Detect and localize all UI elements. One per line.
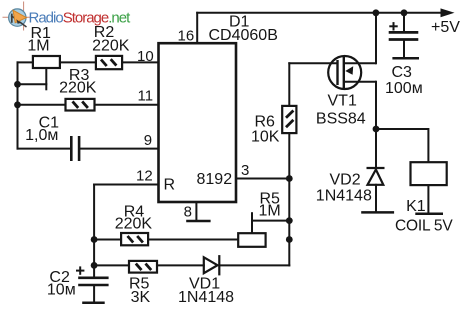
svg-text:8192: 8192 xyxy=(197,171,233,188)
wire pin 3 xyxy=(236,178,289,180)
wire K1 to ground xyxy=(427,185,429,213)
ground of K1 xyxy=(415,212,443,215)
wire pin16 to rail xyxy=(196,13,198,43)
svg-text:R: R xyxy=(164,177,176,194)
svg-text:220K: 220K xyxy=(92,37,130,54)
capacitor C2 plates xyxy=(78,278,108,285)
wire C3 top lead xyxy=(403,13,405,33)
wire gate of VT1 xyxy=(289,62,337,64)
resistor R5 3K body xyxy=(129,261,157,273)
wire R3 to pin 11 xyxy=(95,104,159,106)
wire +5V rail xyxy=(197,12,447,14)
svg-text:10м: 10м xyxy=(47,282,76,299)
wire R4 to R5 1M xyxy=(148,239,238,241)
transistor VT1 BSS84 xyxy=(328,56,376,89)
capacitor C1 plates xyxy=(71,136,79,161)
svg-text:9: 9 xyxy=(144,132,152,149)
resistor R6 power marks xyxy=(286,111,293,128)
wire VT1 drain vertical xyxy=(375,82,377,129)
wire C1 to pin 9 xyxy=(79,148,158,150)
capacitor C3 plates xyxy=(389,32,419,39)
wire R5 1M wiper xyxy=(252,220,289,222)
resistor R6 body xyxy=(282,106,296,133)
svg-text:1M: 1M xyxy=(259,202,281,219)
resistor R1 wiper tap xyxy=(45,68,47,90)
svg-text:3K: 3K xyxy=(131,289,151,306)
svg-text:8: 8 xyxy=(184,204,192,221)
diode VD2 xyxy=(367,168,385,185)
wire drain node to VD2 xyxy=(375,129,377,168)
resistor R5 3K power marks xyxy=(136,264,151,271)
resistor R3 body xyxy=(66,99,95,111)
wire pin 11 net left xyxy=(18,104,66,106)
wire VT1 source to rail xyxy=(375,13,377,64)
svg-text:1N4148: 1N4148 xyxy=(316,188,372,205)
wire R4 left lead xyxy=(94,239,121,241)
wire left vertical bus xyxy=(17,62,19,148)
ground of C2 xyxy=(82,301,105,304)
wire R1 to R2 xyxy=(60,61,96,63)
wire R2 to pin 10 xyxy=(122,61,159,63)
svg-text:+5V: +5V xyxy=(431,19,460,36)
resistor R4 power marks xyxy=(128,236,143,243)
wire R1 wiper xyxy=(18,83,47,85)
svg-text:C3: C3 xyxy=(392,64,413,81)
resistor R1 trimmer body xyxy=(33,56,60,68)
wire pin 12 vertical xyxy=(93,185,95,266)
svg-text:10K: 10K xyxy=(251,128,280,145)
svg-text:BSS84: BSS84 xyxy=(316,111,366,128)
wire R5 3K to VD1 anode xyxy=(157,264,204,266)
wire bottom net C2 to R5 3K xyxy=(94,264,129,266)
resistor R5 1M trimmer body xyxy=(238,233,265,247)
svg-text:100м: 100м xyxy=(385,80,423,97)
svg-text:3: 3 xyxy=(241,162,249,179)
C2 polarity plus xyxy=(76,266,84,274)
svg-text:K1: K1 xyxy=(406,198,426,215)
svg-text:220K: 220K xyxy=(115,216,153,233)
relay K1 body xyxy=(411,162,447,185)
resistor R5 1M wiper tap xyxy=(251,212,253,233)
svg-text:VD2: VD2 xyxy=(330,171,361,188)
wire drain node to K1 xyxy=(376,129,428,162)
power +5V arrow xyxy=(441,8,455,17)
wire VD2 to ground xyxy=(375,185,377,212)
svg-text:1M: 1M xyxy=(27,37,49,54)
resistor R2 body xyxy=(96,56,122,69)
svg-text:CD4060B: CD4060B xyxy=(209,27,278,44)
wire pin 12 horizontal xyxy=(94,184,158,186)
wire C2 bottom lead xyxy=(93,285,95,302)
svg-text:16: 16 xyxy=(178,27,195,44)
svg-text:VT1: VT1 xyxy=(328,93,357,110)
ground of VD2 xyxy=(361,211,394,214)
wire C1 left lead xyxy=(18,148,72,150)
svg-text:12: 12 xyxy=(136,168,153,185)
svg-text:COIL 5V: COIL 5V xyxy=(395,218,453,235)
VT1 channel arrow xyxy=(345,66,353,75)
ground of C3 xyxy=(392,57,419,60)
C3 polarity plus xyxy=(389,22,397,30)
resistor R3 power marks xyxy=(73,101,88,108)
svg-text:10: 10 xyxy=(137,48,154,65)
diode VD1 xyxy=(204,255,220,275)
wire VD1 cathode right xyxy=(219,264,289,266)
svg-text:11: 11 xyxy=(138,88,154,105)
ground of pin 8 xyxy=(186,220,210,223)
wire R6 net vertical xyxy=(288,63,290,239)
wire C2 top lead xyxy=(93,265,95,277)
svg-text:220K: 220K xyxy=(59,80,97,97)
wire R1 left lead xyxy=(18,61,33,63)
wire C3 bottom lead xyxy=(403,40,405,58)
wire pin 8 to ground xyxy=(195,202,197,221)
wire bottom right vertical xyxy=(288,240,290,266)
logo RadioStorage.net xyxy=(3,2,132,31)
resistor R4 body xyxy=(121,233,148,245)
svg-text:1N4148: 1N4148 xyxy=(178,289,234,306)
IC D1 CD4060B body xyxy=(159,43,237,202)
resistor R2 power marks xyxy=(101,59,116,66)
svg-text:1,0м: 1,0м xyxy=(25,127,58,144)
